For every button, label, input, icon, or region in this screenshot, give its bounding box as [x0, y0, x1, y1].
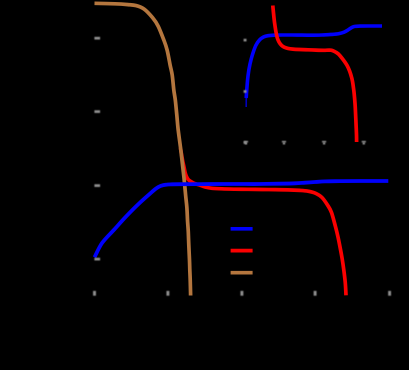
legend blue line — [231, 227, 253, 231]
main brown curve (CH4) — [95, 3, 191, 295]
main x tick 1 — [93, 291, 96, 296]
inset x tick 3 stem — [323, 142, 325, 144]
inset x tick 3 bar — [322, 141, 326, 143]
inset x tick 1 bar — [244, 141, 248, 143]
main blue curve (H2) — [95, 181, 389, 257]
main y tick 2 — [94, 110, 100, 113]
legend brown line — [231, 271, 253, 275]
main red curve (CO) — [181, 148, 347, 295]
inset blue curve tail (clipped at inset left spine) — [245, 93, 247, 107]
inset x tick 1 stem — [245, 142, 247, 144]
inset x tick 2 stem — [283, 142, 285, 144]
inset red curve — [273, 6, 357, 143]
main y tick 4 — [94, 258, 100, 261]
main x tick 4 — [314, 291, 317, 296]
inset y tick 1 — [244, 39, 247, 42]
legend red line — [231, 249, 253, 253]
inset blue curve — [246, 26, 382, 98]
main x tick 5 — [388, 291, 391, 296]
main x tick 2 — [166, 291, 169, 296]
inset y tick 2 — [244, 90, 247, 93]
main y tick 3 — [94, 184, 100, 187]
main x tick 3 — [240, 291, 243, 296]
inset x tick 4 stem — [363, 142, 365, 144]
inset x tick 2 bar — [282, 141, 286, 143]
main y tick 1 — [94, 37, 100, 40]
inset x tick 4 bar — [362, 141, 366, 143]
inset y tick 3 — [244, 141, 247, 144]
